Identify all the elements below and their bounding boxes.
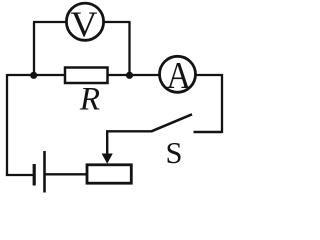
wire: voltmeter branch top right horizontal [104, 21, 131, 23]
wire: voltmeter branch top left horizontal [33, 21, 67, 23]
wire: left vertical [6, 74, 8, 176]
resistor R [65, 68, 108, 84]
wiper arrowhead [102, 154, 113, 164]
svg-text:A: A [167, 55, 192, 97]
ammeter A [160, 55, 196, 97]
wire: right vertical [221, 74, 223, 133]
node: right junction dot [126, 72, 133, 79]
node: left junction dot [30, 72, 37, 79]
voltmeter V [66, 3, 103, 44]
wire: main horizontal bus [7, 74, 222, 76]
svg-text:S: S [166, 136, 183, 170]
wire: voltmeter branch left vertical [33, 22, 35, 75]
wire: horizontal to switch [106, 130, 152, 132]
rheostat [87, 165, 131, 183]
svg-text:V: V [71, 4, 98, 44]
battery [34, 151, 44, 193]
wire: battery to rheostat [45, 173, 88, 175]
svg-text:R: R [79, 81, 100, 117]
wire: switch right contact [194, 131, 223, 133]
wire: wiper riser vertical [106, 131, 108, 156]
switch S lever [152, 114, 193, 131]
wire: bottom left horizontal to battery [6, 174, 34, 176]
wire: voltmeter branch right vertical [128, 22, 130, 75]
